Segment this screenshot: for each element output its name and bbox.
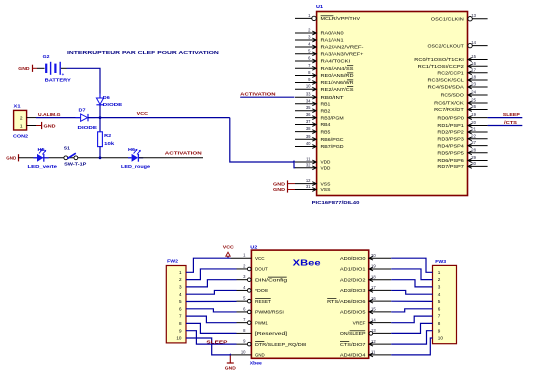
svg-text:VCC: VCC (137, 111, 149, 116)
svg-text:DIN/Config: DIN/Config (255, 277, 288, 282)
svg-text:10: 10 (438, 336, 444, 341)
svg-text:3: 3 (179, 285, 182, 290)
svg-text:20: 20 (371, 253, 376, 258)
svg-text:9: 9 (179, 328, 182, 333)
svg-text:*DO8: *DO8 (255, 288, 268, 293)
svg-text:19: 19 (471, 112, 476, 117)
svg-text:2: 2 (179, 277, 182, 282)
svg-text:RD4/PSP4: RD4/PSP4 (437, 143, 464, 148)
svg-text:RB7/PGD: RB7/PGD (321, 144, 345, 149)
svg-text:7: 7 (438, 314, 441, 319)
svg-text:GND: GND (18, 66, 30, 71)
svg-text:2: 2 (20, 116, 23, 122)
svg-text:GND: GND (273, 187, 285, 192)
svg-text:INTERRUPTEUR PAR CLEF POUR ACT: INTERRUPTEUR PAR CLEF POUR ACTIVATION (67, 50, 220, 56)
svg-text:RB6/PGC: RB6/PGC (321, 137, 345, 142)
svg-text:5: 5 (438, 299, 441, 304)
svg-text:RD0/PSP0: RD0/PSP0 (437, 115, 464, 120)
svg-text:S1: S1 (64, 146, 70, 151)
svg-text:10k: 10k (104, 141, 115, 146)
svg-text:RC0/T1OSO/T1CKI: RC0/T1OSO/T1CKI (414, 57, 464, 62)
svg-text:RA5/AN4/SS: RA5/AN4/SS (321, 66, 354, 71)
svg-text:MCLR/VPP/THV: MCLR/VPP/THV (321, 16, 361, 21)
svg-text:6: 6 (179, 306, 182, 311)
svg-text:9: 9 (438, 328, 441, 333)
svg-text:8: 8 (438, 321, 441, 326)
svg-text:VSS: VSS (321, 187, 331, 192)
svg-text:RD1/PSP1: RD1/PSP1 (437, 123, 464, 128)
svg-text:22: 22 (471, 133, 476, 138)
svg-text:U2: U2 (250, 245, 258, 250)
svg-text:13: 13 (371, 328, 376, 333)
svg-text:18: 18 (371, 274, 376, 279)
svg-text:RB2: RB2 (321, 108, 331, 113)
svg-text:RE0/AN5/RD: RE0/AN5/RD (321, 73, 355, 78)
svg-text:28: 28 (471, 147, 476, 152)
svg-text:30: 30 (471, 161, 476, 166)
svg-text:24: 24 (471, 90, 476, 95)
svg-text:GND: GND (255, 353, 265, 358)
svg-text:RD5/PSP5: RD5/PSP5 (437, 151, 464, 156)
svg-text:ON/SLEEP: ON/SLEEP (340, 331, 366, 336)
svg-text:2: 2 (438, 277, 441, 282)
svg-text:15: 15 (471, 54, 476, 59)
svg-text:AD3/DIO3: AD3/DIO3 (340, 288, 366, 293)
svg-text:15: 15 (371, 307, 376, 312)
svg-text:RD3/PSP3: RD3/PSP3 (437, 137, 464, 142)
svg-text:FW2: FW2 (167, 258, 178, 263)
svg-text:RA1/AN1: RA1/AN1 (321, 38, 345, 43)
svg-text:38: 38 (306, 126, 311, 131)
svg-text:DTR/SLEEP_RQ/DI8: DTR/SLEEP_RQ/DI8 (255, 342, 307, 347)
svg-text:20: 20 (471, 120, 476, 125)
svg-text:26: 26 (471, 104, 476, 109)
svg-text:RA3/AN3/VREF+: RA3/AN3/VREF+ (321, 52, 364, 57)
svg-text:RE2/AN7/CS: RE2/AN7/CS (321, 87, 354, 92)
svg-text:RD2/PSP2: RD2/PSP2 (437, 130, 464, 135)
svg-text:40: 40 (306, 141, 311, 146)
svg-text:1: 1 (179, 270, 182, 275)
svg-text:VSS: VSS (321, 181, 331, 186)
svg-text:RE1/AN6/WR: RE1/AN6/WR (321, 80, 355, 85)
svg-text:17: 17 (471, 67, 476, 72)
svg-text:37: 37 (306, 119, 311, 124)
svg-text:RA0/AN0: RA0/AN0 (321, 31, 345, 36)
svg-text:RC5/SDO: RC5/SDO (441, 93, 465, 98)
svg-text:D7: D7 (79, 107, 87, 112)
svg-text:[Reserved]: [Reserved] (255, 331, 287, 336)
svg-text:OSC1/CLKIN: OSC1/CLKIN (431, 16, 464, 21)
svg-text:RC3/SCK/SCL: RC3/SCK/SCL (428, 78, 465, 83)
svg-text:AD0/DIO0: AD0/DIO0 (340, 256, 366, 261)
svg-text:RD7/PSP7: RD7/PSP7 (437, 164, 464, 169)
svg-text:ACTIVATION: ACTIVATION (165, 151, 203, 157)
svg-text:VDD: VDD (321, 166, 332, 171)
svg-text:RA4/T0CKI: RA4/T0CKI (321, 59, 351, 64)
svg-text:29: 29 (471, 155, 476, 160)
svg-text:36: 36 (306, 112, 311, 117)
svg-text:RC6/TX/CK: RC6/TX/CK (434, 101, 464, 106)
svg-text:H5: H5 (38, 147, 46, 152)
svg-text:10: 10 (241, 349, 246, 354)
svg-text:RB5: RB5 (321, 129, 331, 134)
svg-text:AD4/DIO4: AD4/DIO4 (340, 353, 366, 358)
svg-text:3: 3 (438, 285, 441, 290)
svg-text:VREF: VREF (353, 320, 366, 325)
svg-text:RB0/INT: RB0/INT (321, 95, 344, 100)
svg-text:10: 10 (306, 84, 311, 89)
svg-text:1: 1 (438, 270, 441, 275)
svg-text:GND: GND (273, 181, 285, 186)
svg-text:RB4: RB4 (321, 122, 331, 127)
svg-text:32: 32 (306, 162, 311, 167)
svg-text:LED_verte: LED_verte (28, 164, 58, 169)
svg-text:19: 19 (371, 264, 376, 269)
svg-text:DOUT: DOUT (255, 267, 268, 272)
svg-text:4: 4 (438, 292, 441, 297)
svg-text:11: 11 (371, 349, 376, 354)
svg-text:CON2: CON2 (13, 133, 29, 138)
svg-text:RB3/PGM: RB3/PGM (321, 115, 344, 120)
svg-text:DIODE: DIODE (78, 125, 98, 130)
svg-text:OSC2/CLKOUT: OSC2/CLKOUT (428, 43, 465, 48)
svg-text:6: 6 (438, 306, 441, 311)
svg-text:FW3: FW3 (435, 259, 446, 264)
svg-text:8: 8 (179, 321, 182, 326)
svg-text:1: 1 (20, 124, 23, 130)
svg-text:14: 14 (471, 40, 476, 45)
svg-text:XBee: XBee (293, 258, 321, 268)
svg-text:18: 18 (471, 75, 476, 80)
svg-text:GND: GND (225, 365, 237, 370)
svg-text:G2: G2 (43, 54, 50, 59)
svg-text:+: + (62, 72, 65, 77)
svg-text:GND: GND (6, 156, 17, 161)
svg-text:RC4/SDI/SDA: RC4/SDI/SDA (428, 85, 464, 90)
svg-text:X1: X1 (14, 104, 22, 109)
svg-text:16: 16 (471, 61, 476, 66)
svg-text:AD5/DIO5: AD5/DIO5 (340, 310, 366, 315)
svg-text:7: 7 (179, 314, 182, 319)
svg-text:RA2/AN2/VREF-: RA2/AN2/VREF- (321, 45, 365, 50)
svg-text:PWM0/RSSI: PWM0/RSSI (255, 310, 284, 315)
svg-text:AD2/DIO2: AD2/DIO2 (340, 277, 366, 282)
svg-text:39: 39 (306, 134, 311, 139)
svg-text:12: 12 (306, 178, 311, 183)
svg-text:14: 14 (371, 317, 376, 322)
svg-text:DIODE: DIODE (103, 102, 123, 107)
svg-text:RB1: RB1 (321, 102, 331, 107)
svg-text:RESET: RESET (255, 299, 271, 304)
svg-text:H6: H6 (128, 147, 136, 152)
svg-text:16: 16 (371, 296, 376, 301)
svg-text:RC2/CCP1: RC2/CCP1 (437, 71, 464, 76)
svg-text:ACTIVATION: ACTIVATION (240, 91, 276, 97)
svg-text:27: 27 (471, 140, 476, 145)
svg-text:Xbee: Xbee (250, 361, 262, 366)
svg-text:U.ALIM.G: U.ALIM.G (38, 112, 61, 117)
svg-text:PIC16F877/DIL40: PIC16F877/DIL40 (312, 200, 360, 205)
svg-text:34: 34 (306, 98, 311, 103)
svg-text:35: 35 (306, 105, 311, 110)
svg-text:25: 25 (471, 98, 476, 103)
svg-text:AD1/DIO1: AD1/DIO1 (340, 267, 366, 272)
svg-text:RD6/PSP6: RD6/PSP6 (437, 158, 464, 163)
svg-text:11: 11 (306, 157, 311, 162)
svg-text:RTS/AD6/DIO6: RTS/AD6/DIO6 (327, 299, 366, 304)
svg-text:33: 33 (306, 92, 311, 97)
svg-text:LED_rouge: LED_rouge (121, 164, 151, 169)
svg-text:VDD: VDD (321, 160, 332, 165)
svg-text:SLEEP: SLEEP (206, 340, 227, 345)
svg-text:BATTERY: BATTERY (45, 78, 71, 83)
svg-text:VCC: VCC (255, 256, 265, 261)
svg-text:GND: GND (44, 123, 57, 128)
svg-text:17: 17 (371, 285, 376, 290)
svg-text:RC1/T1OSI/CCP2: RC1/T1OSI/CCP2 (418, 64, 465, 69)
svg-text:5: 5 (179, 299, 182, 304)
svg-text:12: 12 (371, 339, 376, 344)
svg-text:PWM1: PWM1 (255, 320, 268, 325)
svg-text:10: 10 (176, 336, 182, 341)
svg-text:21: 21 (471, 127, 476, 132)
svg-text:SW-T-1P: SW-T-1P (64, 161, 86, 166)
svg-text:RC7/RX/DT: RC7/RX/DT (434, 107, 464, 112)
svg-text:VCC: VCC (223, 244, 235, 249)
svg-text:R2: R2 (104, 133, 112, 138)
svg-text:CTS/DIO7: CTS/DIO7 (340, 342, 366, 347)
svg-text:4: 4 (179, 292, 182, 297)
svg-text:D6: D6 (103, 95, 111, 100)
svg-text:U1: U1 (316, 4, 324, 9)
svg-text:23: 23 (471, 82, 476, 87)
svg-text:31: 31 (306, 184, 311, 189)
svg-text:13: 13 (471, 13, 476, 18)
